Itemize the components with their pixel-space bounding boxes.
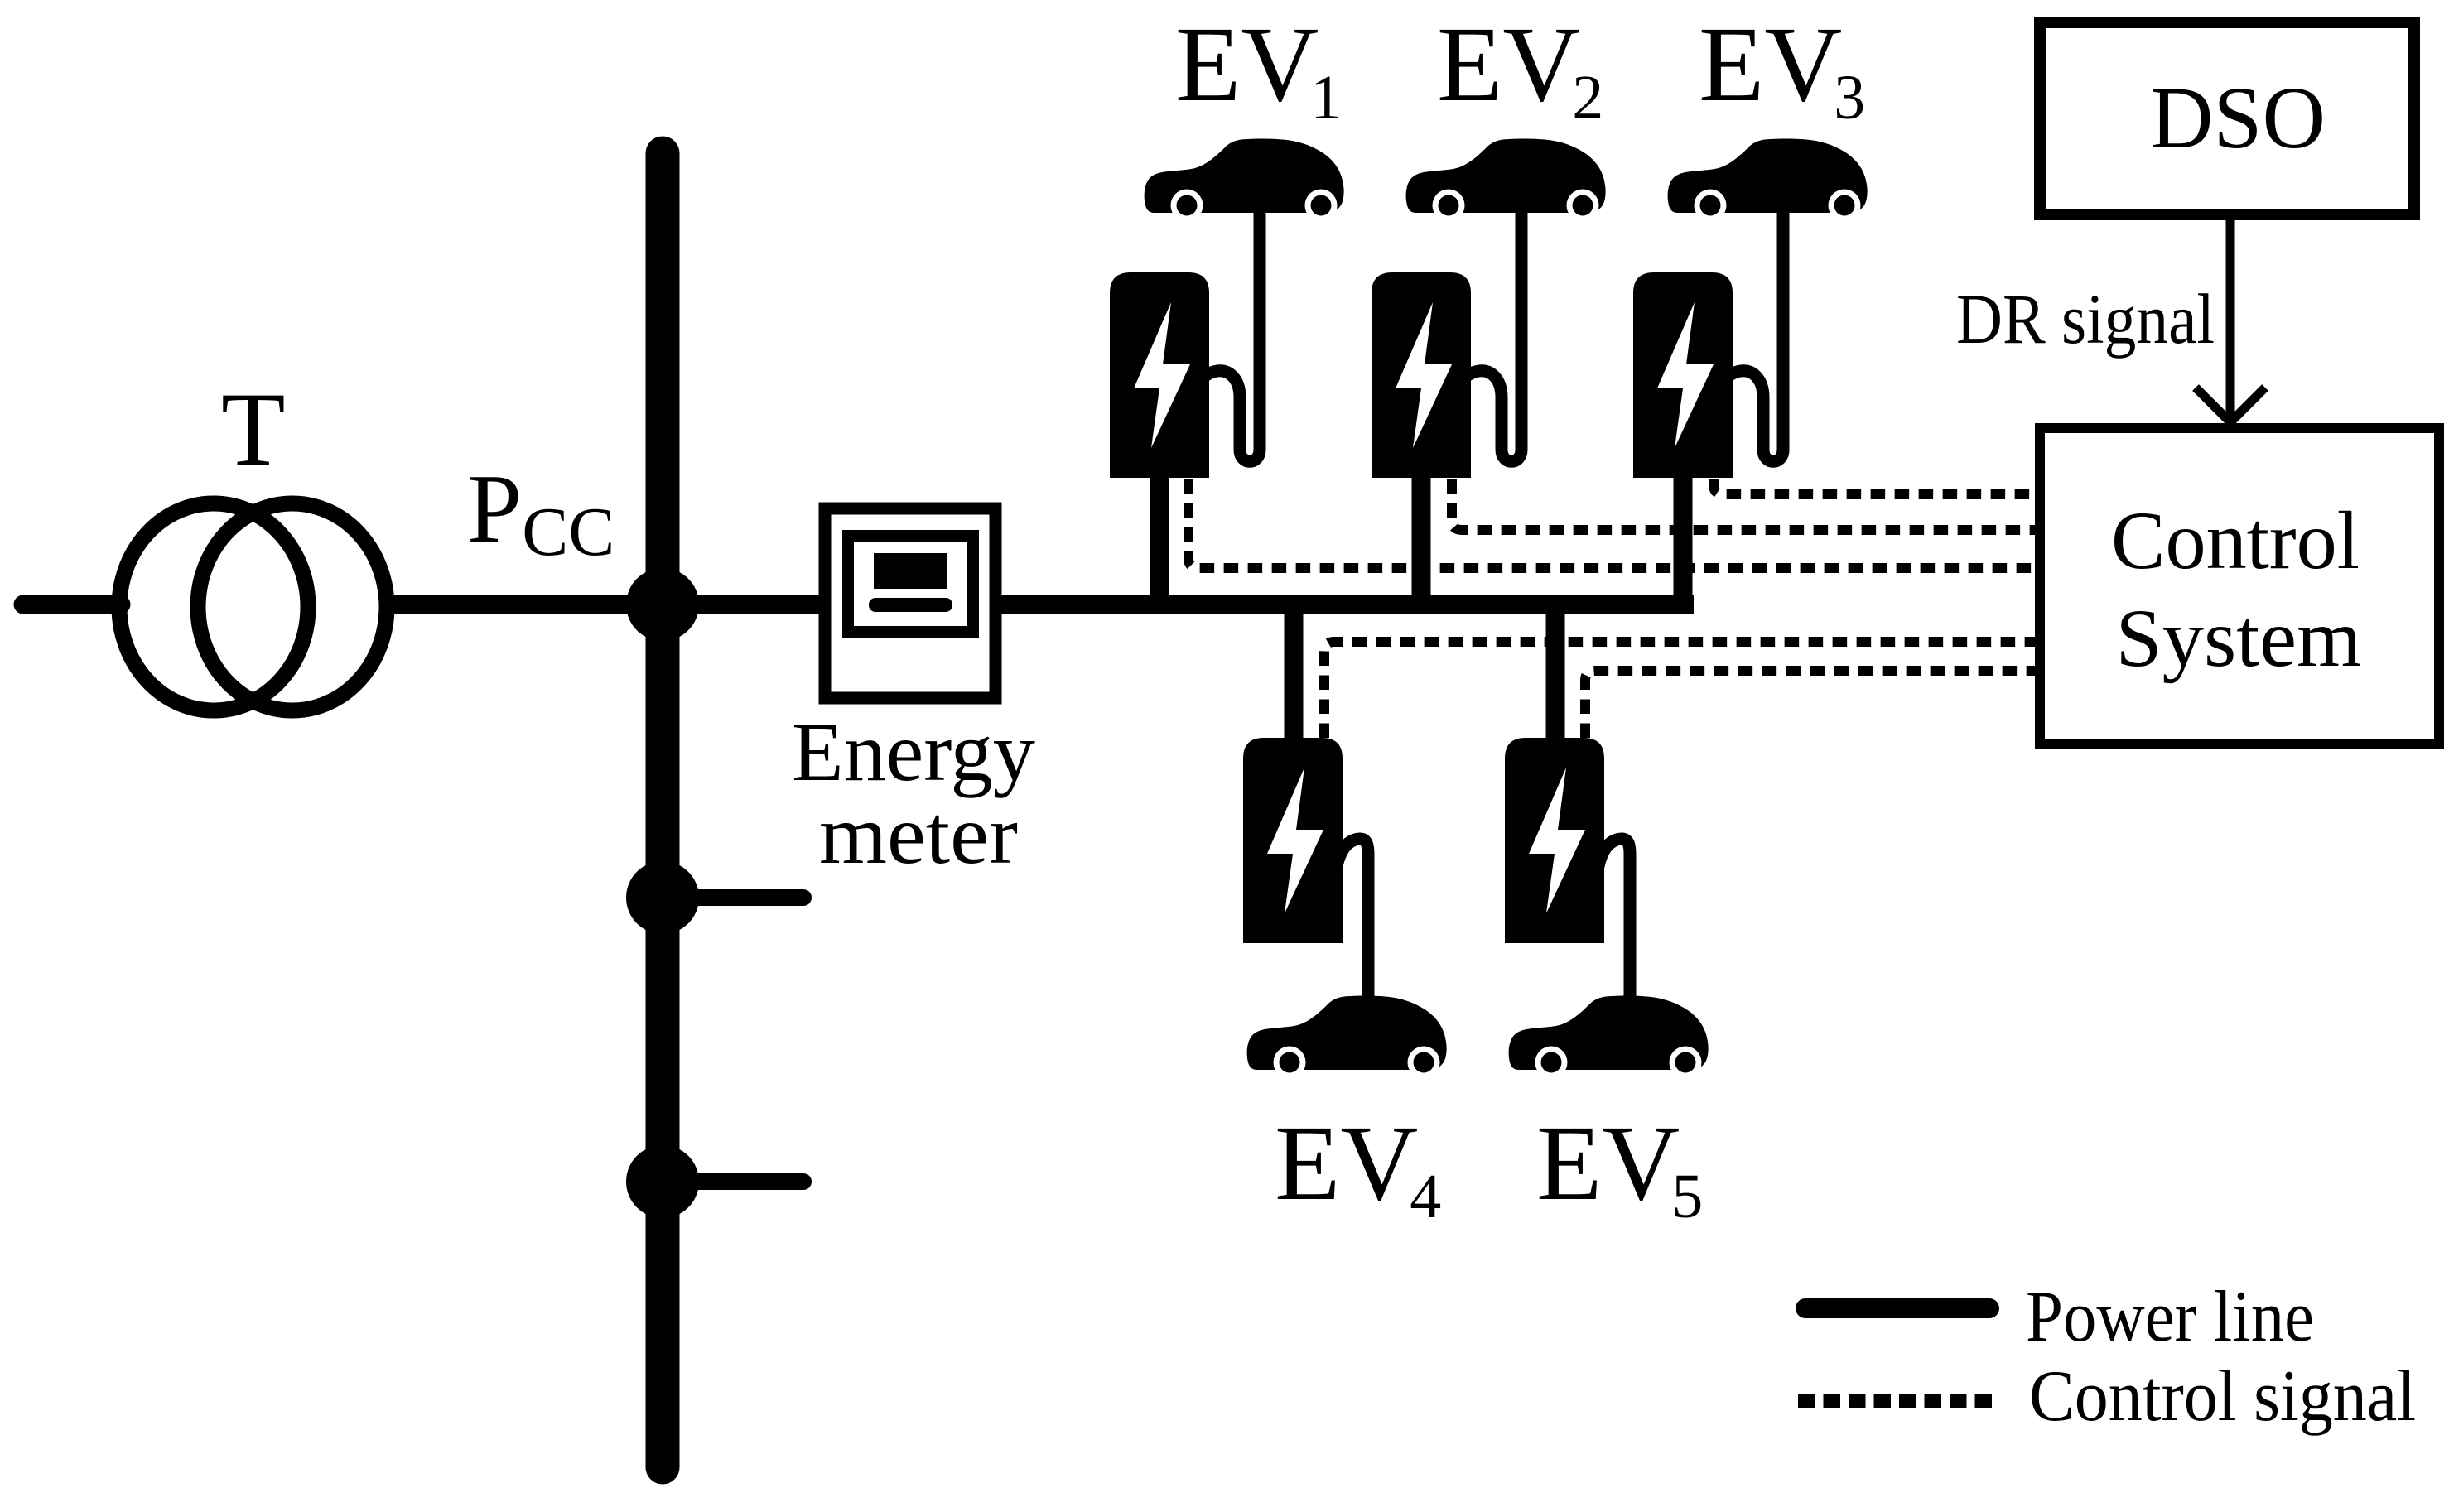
- EV4 car: [1247, 995, 1447, 1078]
- svg-text:System: System: [2116, 592, 2362, 684]
- DR signal arrow shaft: [2226, 220, 2235, 421]
- EV5 charging station: [1505, 738, 1604, 943]
- EV1 charging station: [1110, 272, 1209, 478]
- bus bar (vertical feeder): [646, 153, 680, 1467]
- svg-text:EV3: EV3: [1699, 5, 1865, 132]
- node PCC junction dot: [626, 568, 699, 641]
- control signal dashed line from EV5 charger: [1585, 671, 2035, 738]
- wire: EV4 station drop: [1285, 595, 1304, 741]
- energy meter display screen: [874, 553, 947, 589]
- svg-text:T: T: [221, 372, 286, 488]
- wire: EV2 station drop: [1412, 468, 1431, 614]
- DSO box: [2040, 22, 2414, 214]
- wire: bus to energy meter: [663, 595, 824, 614]
- svg-text:Power line: Power line: [2026, 1277, 2314, 1357]
- energy meter display bar: [869, 598, 952, 612]
- svg-text:DR signal: DR signal: [1956, 279, 2215, 359]
- node: bus tap junction dot 2: [626, 861, 699, 934]
- EV4 charging station: [1243, 738, 1343, 943]
- wire: EV5 station drop: [1546, 595, 1565, 741]
- EV4 charging cable: [1337, 839, 1368, 1004]
- DR signal arrowhead: [2196, 388, 2265, 422]
- svg-text:EV4: EV4: [1275, 1104, 1441, 1231]
- transformer T secondary winding circle: [198, 503, 387, 710]
- wire: transformer to PCC bus: [384, 595, 671, 614]
- energy meter outer case: [825, 508, 996, 698]
- EV1 charging cable: [1199, 207, 1260, 461]
- wire: bus tap stub 3: [663, 1173, 803, 1190]
- svg-text:Energy: Energy: [792, 705, 1035, 799]
- svg-text:DSO: DSO: [2150, 70, 2326, 167]
- EV2 car: [1406, 138, 1606, 221]
- wire: EV3 station drop: [1674, 468, 1693, 614]
- EV1 car: [1145, 138, 1344, 221]
- transformer T primary winding circle: [119, 503, 308, 710]
- svg-text:EV2: EV2: [1437, 5, 1603, 132]
- legend: power line sample: [1805, 1298, 1989, 1318]
- svg-text:Control signal: Control signal: [2029, 1356, 2416, 1437]
- EV2 charging station: [1372, 272, 1471, 478]
- control signal dashed line from EV1 charger: [1188, 479, 2035, 568]
- EV5 car: [1509, 995, 1709, 1078]
- wire: bus tap stub 2: [663, 889, 803, 906]
- Control System box: [2040, 428, 2439, 744]
- EV2 charging cable: [1461, 207, 1521, 461]
- node: bus tap junction dot 3: [626, 1145, 699, 1218]
- EV3 charging cable: [1723, 207, 1783, 461]
- wire: main power line from meter to EV feeder end: [996, 595, 1694, 614]
- EV3 charging station: [1633, 272, 1733, 478]
- control signal dashed line from EV4 charger: [1324, 642, 2035, 738]
- EV5 charging cable: [1598, 839, 1630, 1004]
- wire: incoming feeder line left of transformer: [23, 595, 121, 614]
- EV3 car: [1668, 138, 1868, 221]
- control signal dashed line from EV3 charger: [1714, 479, 2035, 494]
- svg-text:EV5: EV5: [1536, 1104, 1703, 1231]
- svg-text:meter: meter: [819, 788, 1018, 882]
- svg-text:EV1: EV1: [1175, 5, 1342, 132]
- energy meter inner frame: [848, 536, 973, 632]
- legend: control signal sample: [1798, 1394, 1993, 1408]
- wire: EV1 station drop: [1150, 468, 1169, 614]
- control signal dashed line from EV2 charger: [1452, 479, 2035, 530]
- svg-text:Control: Control: [2111, 494, 2360, 586]
